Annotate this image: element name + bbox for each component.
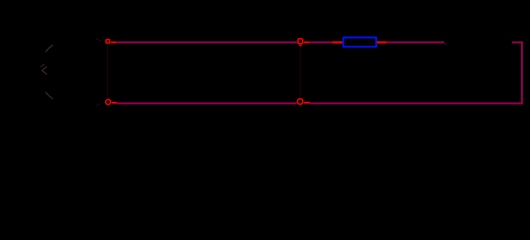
wire (top rail segment 1) (116, 41, 297, 43)
switch contact tick (faint, at wire end) (444, 43, 446, 46)
wire stub (red, right of bottom-left node) (112, 102, 117, 104)
resistor R1 right lead (red) (377, 41, 387, 43)
element (dark vertical branch at middle, near-black) (299, 47, 301, 98)
wire (source bottom lead, black-drawn, faint tick near node) (96, 104, 101, 107)
wire stub (red, right of top-middle node) (304, 41, 310, 43)
wire (top rail segment 3, ends at open gap) (387, 41, 445, 43)
node terminal (bottom-middle, circle) (298, 99, 303, 104)
wire (top rail segment 2) (310, 41, 333, 43)
wire stub (red, right of bottom-middle node) (304, 102, 310, 104)
resistor R1 left lead (red) (333, 41, 343, 43)
wire (source top lead, black-drawn, faint tick near node) (96, 39, 101, 42)
wire (right vertical) (521, 41, 523, 103)
node terminal (top-middle, square with lower point) (298, 39, 303, 46)
wire (top-right stub into corner) (512, 41, 523, 43)
node terminal (top-left, square) (106, 40, 110, 44)
node terminal (bottom-left, circle) (106, 100, 111, 105)
wire (bottom rail segment 1) (117, 102, 297, 104)
wire (bottom rail segment 2, to right corner) (310, 102, 523, 104)
source V1 (black-drawn circle body, only faint arc fragments visible) (41, 45, 54, 99)
wire stub (red, right of top-left node) (111, 41, 116, 43)
element (dark vertical branch at left, near-black) (107, 45, 109, 99)
resistor R1 (blue box body) (343, 38, 376, 47)
